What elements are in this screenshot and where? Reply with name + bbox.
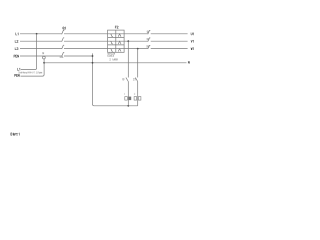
overload relay F2 row divider 1	[108, 37, 125, 39]
terminal X2 label above pair2	[133, 93, 136, 95]
overload relay F2 outer box	[108, 30, 125, 52]
wire L2 middle segment	[64, 40, 148, 42]
contact S2 blade	[135, 78, 137, 82]
wire branch2 vertical lower	[137, 82, 139, 106]
node U1 label	[191, 33, 193, 35]
switch Q1 pole 3 blade	[62, 45, 64, 49]
junction dot rail branch1	[127, 105, 129, 107]
contact S2 pin label	[133, 78, 135, 80]
terminal box pair 1 right	[129, 97, 132, 101]
junction dot PEN end	[92, 55, 94, 57]
contact S1 blade	[126, 78, 128, 82]
wire PEN left segment	[20, 55, 62, 57]
contactor Q2 contact row2 blade	[148, 38, 150, 42]
junction dot N crossing	[92, 62, 94, 64]
contactor Q2 contact row2 pin label	[147, 38, 149, 40]
node V1 label	[191, 40, 193, 42]
overload relay F2 designator	[115, 26, 118, 28]
switch Q1 designator	[63, 27, 66, 29]
junction dot L1 tap	[36, 33, 38, 35]
wire L1 tap down and left	[21, 34, 37, 70]
contactor Q2 contact row1 blade	[148, 31, 150, 35]
terminal box pair 2 right	[138, 97, 141, 101]
terminal circle PEN split	[43, 56, 46, 59]
node L3 label	[15, 48, 18, 50]
switch Q1 pole 4 blade	[62, 53, 64, 57]
wire L2 right segment	[151, 40, 188, 42]
contactor Q2 contact row1 pin label	[147, 31, 149, 33]
wire branch1 vertical upper	[127, 41, 129, 77]
junction dot PEN drop N line	[43, 62, 45, 64]
junction dot L3 branch2 tap	[137, 48, 139, 50]
node L1 offpage label	[17, 68, 19, 70]
contactor Q2 contact row3 pin label	[147, 46, 149, 48]
overload relay F2 magnetic element row3	[118, 49, 121, 52]
wire L3 right segment	[151, 48, 188, 50]
wire branch2 vertical upper	[137, 49, 139, 78]
contact S1 pin label	[122, 78, 124, 80]
overload relay F2 thermal element row3	[110, 49, 113, 52]
contactor Q2 contact row3 blade	[148, 45, 150, 49]
wire L3 left segment	[20, 48, 62, 50]
overload relay F2 setting text line2	[108, 55, 114, 57]
overload relay F2 thermal element row2	[110, 41, 113, 44]
wire PEN right segment	[64, 55, 93, 57]
node PEN offpage label	[15, 74, 20, 76]
wire N line	[44, 62, 186, 64]
terminal X1 label above pair1	[123, 93, 125, 95]
terminal box pair 2 left	[134, 97, 137, 101]
sheet label Blatt 1	[11, 133, 19, 135]
node L1 label	[16, 33, 18, 35]
node N label	[188, 61, 189, 63]
wire L1 middle segment	[64, 33, 148, 35]
wire branch1 vertical lower	[127, 82, 129, 106]
overload relay F2 magnetic element row2	[118, 41, 121, 44]
wire L2 left segment	[20, 40, 62, 42]
overload relay F2 column divider	[115, 30, 117, 52]
wire L3 middle segment	[64, 48, 148, 50]
wire L1 left segment	[20, 33, 62, 35]
overload relay F2 setting text line1	[108, 53, 115, 55]
switch Q1 pole 2 blade	[62, 38, 64, 42]
terminal box pair 1 left	[125, 97, 128, 101]
cable designation text	[19, 72, 42, 74]
wire PEN end tick and drop to rail	[93, 53, 138, 105]
wire PE drop from circle	[21, 59, 45, 76]
overload relay F2 magnetic element row1	[118, 34, 121, 37]
node L2 label	[15, 40, 18, 42]
wire L1 right segment	[151, 33, 188, 35]
motor rating text above N line	[110, 59, 118, 61]
overload relay F2 thermal element row1	[110, 34, 113, 37]
switch Q1 pole 1 blade	[62, 30, 64, 34]
junction dot L2 branch1 tap	[127, 40, 129, 42]
node W1 label	[191, 48, 193, 50]
terminal pin label	[42, 52, 44, 54]
overload relay F2 row divider 2	[108, 44, 125, 46]
switch Q1 value label	[60, 56, 63, 58]
node PEN label	[14, 55, 19, 57]
